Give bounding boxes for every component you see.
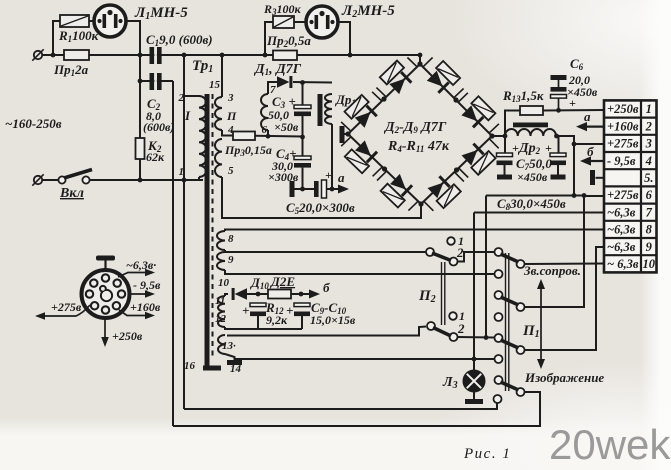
junction: +275в rail at x=584 [582,193,587,198]
svg-text:~160-250в: ~160-250в [5,116,62,131]
fuse Pr2 (0,5a) on mains rail [273,51,297,61]
wire: stub from equalizing resistor on west-south (D6,D7) 2nd [408,201,418,210]
svg-text:- 9,5в: - 9,5в [133,278,161,292]
svg-text:Л3: Л3 [442,375,458,391]
wire: stub to equalizing resistor on south-east (D8,D9) 2nd [459,168,469,178]
wire: D1 cathode to C3 / Dr1 [293,81,332,84]
svg-text:16: 16 [184,360,196,372]
ground: C6 top chassis bar [551,75,567,80]
wire: tap 7 up to diode D1 [268,82,277,94]
wire: C8 rail down the middle (x=486) [485,196,487,338]
svg-text:15: 15 [209,79,221,91]
wire: C7 to chassis [504,165,506,175]
svg-text:8: 8 [228,233,234,245]
svg-text:Д1, Д7Г: Д1, Д7Г [253,62,302,77]
wire: C3 bottom to Pr3 node [302,116,304,137]
tube socket top locating lug [96,256,115,271]
wire: R3 to lamp L2 [294,21,306,23]
junction: tap 3 on mains rail [220,53,225,58]
ground: lamp L3 [465,399,483,404]
wire: D10 cathode to R12 [247,293,268,295]
wire: Dr2 output to +275в terminal 3 [556,136,604,144]
junction: C2 branch [138,79,143,84]
wire: C4 bottom to chassis/C5 wire [302,168,304,189]
svg-text:11: 11 [215,295,225,307]
wire: P1 section3 to terminal 9 [525,247,605,350]
junction: Dr2 output node [554,134,559,139]
junction: Dr1 bottom on node-a wire [330,187,335,192]
switch P1 idle contact 2 [495,313,503,321]
bridge diode on edge north-east (D4,D5) at 2nd position [461,105,484,128]
transformer Tr1 winding II lower section (taps 4-5) [215,139,222,177]
socket arrow +160в (lower right) [119,310,155,319]
junction: R3 branch on mains rail [263,53,268,58]
svg-text:+275в: +275в [51,300,82,314]
bridge diode on edge south-east (D8,D9) at 2nd position [461,143,484,166]
svg-text:+: + [286,303,293,318]
wire: C5 to node a arrow [327,188,339,190]
inductor Dr2 core bar [513,123,548,128]
resistor R3 (100k) [273,16,294,28]
capacitor C3 (50,0x50в) [294,105,311,116]
bridge diode on edge south-east (D8,D9) at 1st position [427,175,450,198]
socket arrow +275в (left) [35,305,90,320]
wire: winding 9 bottom rail to P1 contact [225,270,494,274]
transformer Tr1 winding 8 [217,231,225,250]
junction: C9 top [256,292,261,297]
input terminal (phase, top left) [32,49,43,60]
svg-text:13·: 13· [222,340,236,352]
switch P2 gang link (mechanical) [441,262,443,325]
switch P2 lower section [427,312,458,341]
junction: C1 output on mains rail [182,53,187,58]
switch P1 section 3 (lever) [495,334,525,354]
svg-text:3: 3 [645,137,652,151]
svg-text:4: 4 [645,154,652,168]
wire: R12 to node b [291,293,309,295]
wire: inner bottom rail to P1 bottom contact [184,403,497,409]
svg-text:П1: П1 [522,323,540,340]
junction: C4 on C5 wire [300,187,305,192]
svg-text:+: + [242,303,249,318]
node b arrow (to -9,5в) [309,290,320,299]
wire: from bottom terminal to switch [43,179,59,181]
switch P1 gang link (mechanical) [505,253,507,391]
wire: tap 10 to diode D10 [225,294,228,296]
bridge diode on edge north-east (D4,D5) at 1st position [427,71,450,94]
wire: C1 output vertical down the left side (x=184) [183,55,185,409]
ground: bridge west vertex (chassis bar) [340,126,345,143]
svg-text:2: 2 [178,92,185,104]
tube socket pins (8) [86,274,125,313]
svg-text:~6,3в·: ~6,3в· [126,258,156,272]
wire: P1 section1 to terminal 10 [525,263,605,266]
svg-text:Л2МН-5: Л2МН-5 [341,3,395,20]
svg-text:+275в: +275в [607,137,639,151]
ground: second filter cap [551,175,566,180]
wire: stub from equalizing resistor on west-north (D2,D3) 2nd [407,58,417,67]
ground: transformer core (tap 16) [203,366,221,371]
wire: C9 to winding-12 rail [257,316,259,329]
svg-text:Изображение: Изображение [524,370,604,385]
svg-text:~6,3в: ~6,3в [607,223,636,237]
svg-text:9,2к: 9,2к [266,313,288,327]
wire: stub from equalizing resistor on west-north (D2,D3) 1st [372,92,382,101]
capacitor C9 (15,0x15в) [250,303,266,316]
wire: mains rail down to bridge top vertex [419,55,421,64]
bridge equalizing resistor (R4-R11) on edge north-east (D4,D5) 1st [436,61,460,85]
ground: tap 14 [227,360,242,365]
wire: stub from equalizing resistor on south-east (D8,D9) 1st [454,172,464,182]
wire: winding 8/9 junction rail to switch P2 [225,250,426,252]
wire: C2 horizontal branch [140,80,173,82]
svg-text:6: 6 [646,188,653,202]
capacitor C1 (series, non-polar) [150,47,162,64]
svg-text:2: 2 [457,321,465,336]
wire: heater rail (6,3в) from tap 14 to P1 / lamp L3 [235,358,495,360]
neon lamp L2 MN-5 [306,6,338,38]
mode arrow (Зв.сопров. / Изображение) [537,279,545,369]
bridge equalizing resistor (R4-R11) on edge west-north (D2,D3) 2nd [380,61,404,85]
svg-text:6: 6 [262,124,268,136]
svg-text:×450в: ×450в [517,170,548,184]
svg-text:2: 2 [456,245,464,260]
svg-text:С6: С6 [570,56,584,72]
svg-text:Др2: Др2 [517,141,541,156]
wire: tap 2 to C1 vertical [184,95,199,97]
fuse Pr1 (2a) on mains rail [64,50,89,60]
svg-text:+160в: +160в [130,300,161,314]
junction: L1 branch / C2-K2 branch on mains rail [138,53,143,58]
svg-text:~6,3в: ~6,3в [607,240,636,254]
svg-text:R4-R11 47к: R4-R11 47к [387,139,450,154]
svg-text:1: 1 [646,102,652,116]
junction: filter input node [503,134,508,139]
bridge equalizing resistor (R4-R11) on edge west-north (D2,D3) 1st [345,95,369,119]
svg-text:9: 9 [228,254,234,266]
wire: tap 6 down to Pr3 output node [267,130,269,136]
bridge diode on edge west-south (D6,D7) at 2nd position [390,174,413,197]
wire: tap 14 stub to chassis [225,354,235,361]
wire: C3 stub [302,83,304,106]
transformer Tr1 winding II upper section (taps 3-4) [215,97,222,130]
svg-text:8: 8 [646,223,653,237]
wire: long vertical x=474 down to lamp L3 [473,213,475,374]
transformer Tr1 winding 13 [218,335,225,354]
switch P2 upper section [426,237,458,265]
wire: P1 section2 up to +275в rail [525,196,585,308]
wire: stub to equalizing resistor on north-east (D4,D5) 2nd [458,93,468,102]
svg-text:+: + [512,141,519,155]
switch P1 section 2 (lever) [495,291,525,311]
svg-text:5.: 5. [644,171,653,185]
wire: winding 12 bottom rail under C9/C10 [225,327,302,329]
wire: R1 to lamp L1 [89,20,94,22]
bridge equalizing resistor (R4-R11) on edge west-south (D6,D7) 1st [345,149,369,173]
socket arrow ~6,3в (upper right) [118,269,155,277]
svg-text:+: + [325,168,332,182]
wire: branch up-left to R1 [53,21,60,55]
neon lamp L1 MN-5 [94,5,126,37]
fuse Pr3 (0,15a) [233,132,255,141]
svg-text:Вкл: Вкл [59,186,84,201]
svg-text:20wek: 20wek [549,421,671,468]
wire: second filter capacitor stub [558,136,560,153]
svg-text:10: 10 [218,277,230,289]
junction: C10 top [299,292,304,297]
diode D1 (D7G), pointing right [277,76,292,88]
svg-text:×50в: ×50в [274,120,299,134]
wire: vertical from +275в node down to C8 rail [573,144,575,196]
inductor Dr2 winding [505,129,556,136]
junction: L2 branch on mains rail [348,53,353,58]
resistor R12 (9,2k) [268,290,291,299]
svg-text:П: П [226,109,237,123]
wire: stub to equalizing resistor on west-south (D6,D7) 1st [341,137,351,146]
junction: +275в rail at x=574 [572,193,577,198]
wire: tap 5 down and right to bridge AC input [222,177,421,218]
svg-text:а: а [338,170,345,185]
bridge equalizing resistor (R4-R11) on edge west-south (D6,D7) 2nd [381,184,405,208]
switch P1 idle contact 1 [495,270,503,278]
wire: bridge edge south-east (D8,D9) [421,136,492,204]
svg-text:2: 2 [645,119,652,133]
junction: bridge south vertex [418,201,423,206]
switch P1 section 4 (lever) [495,376,525,396]
wire: tap 4 to fuse Pr3 [222,130,233,136]
svg-text:R131,5к: R131,5к [502,88,544,104]
wire: switch to transformer tap 1 [90,179,204,181]
junction: bridge west vertex [345,131,350,136]
wire: C4 stub [302,137,304,156]
wire: tap 1 to mains bottom wire [199,177,203,180]
wire: lamp L3 to chassis [473,392,475,400]
junction: K2 bottom on mains bottom wire [138,178,143,183]
junction: mid of bridge edge north-east (D4,D5) [453,97,458,102]
wire: ~6,3в rail to terminal 7 [474,212,604,214]
junction: mid of bridge edge west-north (D2,D3) [381,96,386,101]
socket arrow -9,5в (right) [130,290,155,298]
transformer Tr1 winding 6-7 [261,94,268,130]
wire: bridge edge west-north (D2,D3) [348,64,420,134]
wire: R13 to terminal 1 (+250в) [543,109,604,112]
svg-text:Пр30,15а: Пр30,15а [224,143,272,158]
svg-text:+: + [569,96,576,110]
wire: bridge edge west-south (D6,D7) [348,134,421,204]
switch P1 idle contact 3 [495,355,503,363]
resistor K2 (62k, vertical) [136,138,145,159]
svg-text:Рис. 1: Рис. 1 [463,446,511,462]
bridge equalizing resistor (R4-R11) on edge south-east (D8,D9) 2nd [471,151,495,175]
wire: stub to equalizing resistor on west-south (D6,D7) 2nd [377,171,387,180]
svg-text:~ 6,3в: ~ 6,3в [607,257,639,271]
svg-text:14: 14 [230,363,242,375]
junction: long left vertical crosses tap-1 wire [182,178,187,183]
ground: C5 wire left end [290,181,295,197]
svg-text:С830,0×450в: С830,0×450в [497,196,566,212]
wire: lamp L2 right lead down to mains rail [338,22,350,55]
diode D10 (D2E), pointing left [232,288,247,300]
svg-text:10: 10 [643,257,656,271]
svg-text:R3100к: R3100к [263,2,302,17]
socket arrow +250в (down) [101,318,109,347]
transformer Tr1 winding 9 [217,252,225,270]
wire: P2 upper moving contact to P1 top contact [458,252,495,262]
wire: C7 stub [504,136,506,153]
transformer Tr1 screen (dashed line, tap 15) [212,94,214,358]
bridge diode on edge west-south (D6,D7) at 1st position [355,140,378,163]
wire: stub to equalizing resistor on west-north (D2,D3) 2nd [376,88,386,97]
wire: C2 branch from mains-rail junction [139,55,141,180]
resistor R1 (100k, fuse indicator) [60,15,89,27]
junction: tap 6 on Pr3 wire [266,134,271,139]
svg-text:Тр1: Тр1 [192,58,213,75]
capacitor (second 450в filter cap at Dr2 output) [550,153,566,165]
bridge diode on edge west-north (D2,D3) at 2nd position [389,71,412,94]
resistor R13 (1,5k) [520,106,543,115]
svg-text:62к: 62к [146,150,165,164]
svg-text:7: 7 [646,205,653,219]
wire: bridge east vertex to filter node [492,135,505,137]
svg-text:Зв.сопров.: Зв.сопров. [523,263,581,278]
inductor Dr1 winding [325,94,332,124]
bridge equalizing resistor (R4-R11) on edge south-east (D8,D9) 1st [437,184,461,208]
wire: mains top rail from input terminal to bridge [43,54,421,56]
transformer Tr1 primary winding I [199,96,206,177]
wire: stub to equalizing resistor on west-north (D2,D3) 1st [341,122,351,131]
svg-text:Д2Е: Д2Е [270,274,295,289]
svg-text:П2: П2 [418,288,436,305]
wire: fuse Pr3 to C3/C4 node [255,135,303,138]
svg-text:+275в: +275в [607,188,639,202]
junction: mid of bridge edge south-east (D8,D9) [454,167,459,172]
bridge diode on edge west-north (D2,D3) at 1st position [355,105,378,128]
svg-text:9: 9 [646,240,653,254]
wire: stub from equalizing resistor on west-south (D6,D7) 1st [373,167,383,176]
ground: C7 [497,175,512,180]
svg-text:3: 3 [227,92,234,104]
bridge equalizing resistor (R4-R11) on edge north-east (D4,D5) 2nd [471,96,495,120]
svg-text:R1100к: R1100к [58,28,99,44]
input terminal (neutral, bottom left) [32,174,43,185]
svg-text:Пр20,5а: Пр20,5а [266,33,311,49]
junction: C4 top node on Pr3 wire [300,135,305,140]
wire: chassis to C5 [294,188,315,190]
svg-text:1: 1 [179,166,185,178]
svg-text:+250в: +250в [112,329,143,343]
svg-text:С19,0 (600в): С19,0 (600в) [146,32,213,48]
wire: tap 3 up to mains rail [221,55,223,97]
wire: +275в / C8 rail to terminal 6 [486,195,604,198]
junction: heater rail at x=474 [472,357,477,362]
svg-text:б: б [587,144,594,159]
terminal block (outputs 1-10) [604,100,657,272]
node b arrow at terminal 4 [580,156,604,165]
transformer Tr1 core (iron) [205,94,210,366]
junction: mid of bridge edge west-south (D6,D7) [382,166,387,171]
wire: terminal 5 chassis stub [596,177,605,179]
transformer Tr1 winding 10-11-12 [218,296,225,327]
wire: stub from equalizing resistor on north-east (D4,D5) 2nd [489,124,499,133]
switch Vkl (mains on/off) [58,170,92,184]
junction: C8 rail on P2 lower wire [484,335,489,340]
svg-text:+250в: +250в [607,102,639,116]
wire: C10 to winding-12 rail [301,316,303,329]
lamp L3 (dial lamp) [464,371,485,392]
svg-text:15,0×15в: 15,0×15в [310,313,356,327]
junction: +275в node [572,142,577,147]
wire: stub to equalizing resistor on south-east (D8,D9) 1st [424,201,434,211]
capacitor C2 (8,0 600в) [150,73,162,90]
capacitor C10 (15,0x15в) [294,303,310,316]
wire: tap 13 rail to switch P2 lower section [227,327,426,336]
svg-text:Д2-Д9 Д7Г: Д2-Д9 Д7Г [383,120,447,135]
wire: second filter cap to chassis [557,165,559,175]
junction: R1 branch on mains rail [51,53,56,58]
junction: bridge east vertex [489,133,494,138]
ground: terminal 5 (chassis) [590,170,595,185]
svg-text:+160в: +160в [607,119,639,133]
wire: stub from equalizing resistor on north-east (D4,D5) 1st [454,89,464,98]
junction: C3 top node [300,80,305,85]
switch P1 section 1 (lever) [495,248,525,268]
wire: stub to equalizing resistor on north-east (D4,D5) 1st [423,58,433,67]
capacitor C4 (30,0x300в) [294,156,311,168]
wire: left branch up to R3 [265,22,273,55]
svg-text:Л1МН-5: Л1МН-5 [134,5,188,22]
node a arrow (to +160в) [338,185,349,194]
svg-text:С520,0×300в: С520,0×300в [286,200,355,216]
svg-text:~6,3в: ~6,3в [607,205,636,219]
svg-text:5: 5 [228,165,234,177]
svg-text:12: 12 [215,313,227,325]
svg-text:а: а [584,109,591,124]
wire: Dr1 to node-a wire [331,124,333,189]
tube socket outline (bottom view) [82,270,130,318]
junction: bridge feed on mains rail [418,53,423,58]
junction: C6 on +250в wire [556,108,561,113]
svg-text:(600в): (600в) [143,120,174,134]
wire: outer bottom rail to P1 lower arm [173,392,540,426]
wire: C2 output vertical down the left side (x=173) [172,81,174,426]
svg-text:б: б [323,280,330,295]
wire: bridge edge north-east (D4,D5) [420,64,492,136]
wire: P2 lower moving contact to P1 contact [458,336,495,339]
tube socket key (keyhole) [100,286,112,301]
wire: bridge west vertex stub to chassis bar [344,133,348,135]
wire: stub from equalizing resistor on south-east (D8,D9) 2nd [489,139,499,149]
junction: bridge north vertex [417,61,422,66]
inductor Dr1 core bar [318,94,323,126]
svg-text:I: I [184,108,191,123]
switch P1 idle contact 4 [494,395,502,403]
svg-text:+: + [545,141,552,155]
svg-text:- 9,5в: - 9,5в [607,154,636,168]
wire: filter node up to R13 [505,111,520,137]
node a arrow at terminal 2 [576,122,604,131]
capacitor C5 (20,0x300в, series on node a wire) [314,180,327,198]
svg-text:Пр12а: Пр12а [53,62,89,78]
capacitor C6 (20,0x450в) [551,80,567,110]
capacitor C7 (50,0x450в) [497,153,513,165]
svg-text:Д10: Д10 [250,275,269,291]
wire: lamp L1 right lead down to mains rail [126,21,140,55]
wire: winding 8 top rail to terminal 8 [225,230,604,232]
